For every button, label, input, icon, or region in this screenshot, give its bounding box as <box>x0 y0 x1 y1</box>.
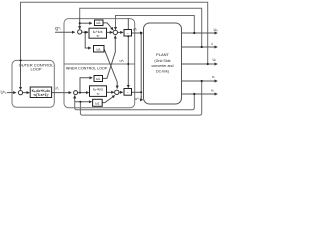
block outer PI controller <box>30 87 51 98</box>
svg-text:Uₖ: Uₖ <box>214 27 219 32</box>
svg-text:ωL: ωL <box>96 21 101 25</box>
svg-text:u*ₗ: u*ₗ <box>120 59 125 63</box>
wire feedback top middle y9.5 <box>80 8 202 46</box>
node dot inner bottom branch <box>79 101 81 103</box>
wire converter reference vertical to plant inputs <box>140 33 142 98</box>
wire top upper block diagonal to sum2 <box>103 23 113 30</box>
block top main PI <box>89 28 107 38</box>
wire top main block to sum2 <box>107 31 113 33</box>
wire plant output vgd <box>182 80 218 82</box>
wire feedback bottom outer y114.8 <box>80 82 201 115</box>
svg-text:Uₗ: Uₗ <box>213 57 217 62</box>
svg-text:~: ~ <box>127 31 129 35</box>
wire top sum1 to main block <box>82 31 88 33</box>
svg-text:ωL: ωL <box>96 77 101 81</box>
wire outer reference input <box>7 92 16 94</box>
svg-text:PLANT: PLANT <box>156 52 169 57</box>
svg-text:vₗ: vₗ <box>212 74 215 79</box>
svg-text:DC-link): DC-link) <box>156 70 169 74</box>
wire inner upper block diagonal to top sum2 <box>103 36 116 79</box>
wire top reference input <box>55 31 75 33</box>
block top modulation <box>124 30 132 37</box>
wire top small block down to inner small block <box>127 36 129 87</box>
node dot inner branch to upper block <box>79 92 81 94</box>
inner control loop box <box>64 19 135 108</box>
svg-text:~: ~ <box>127 91 129 95</box>
wire plant output vgq <box>182 93 218 95</box>
wire outer fb vertical into outer sum <box>20 60 22 90</box>
wire ig fb vertical into top sum1 <box>79 17 81 29</box>
node dot outer box top crossing <box>20 59 22 61</box>
wire plant output Ug <box>182 63 218 65</box>
node dot top small block bottom <box>127 35 129 37</box>
svg-text:LOOP: LOOP <box>30 66 41 71</box>
svg-text:⋅s⋅: ⋅s⋅ <box>96 34 100 38</box>
svg-text:ωL: ωL <box>95 101 100 105</box>
wire inner bottom block diagonal to inner sum2 <box>102 96 115 103</box>
node dot u* inner <box>140 91 142 93</box>
svg-text:converter and: converter and <box>152 64 174 68</box>
wire fb to inner bottom block <box>75 101 92 103</box>
svg-text:(Grid Side: (Grid Side <box>154 59 170 63</box>
block inner upper decoupling <box>94 76 103 82</box>
wire inner small block out <box>132 91 142 93</box>
node dot top branch to lower block <box>84 31 86 33</box>
wire top small block to plant <box>132 32 143 34</box>
node dot Ug tap <box>207 63 209 65</box>
inner box divider <box>64 63 135 65</box>
svg-text:iₗ: iₗ <box>212 41 214 46</box>
svg-text:ωL: ωL <box>96 48 101 52</box>
svg-text:Q*ₗ: Q*ₗ <box>55 26 61 31</box>
wire branch down to top lower block <box>85 32 91 48</box>
wire feedback bottom inner y109.4 <box>75 95 195 110</box>
outer control loop box <box>12 60 54 107</box>
wire feedback top inner y15.5 <box>116 16 195 33</box>
block inner main PI <box>90 86 107 97</box>
sum junction inner row 2 <box>115 90 119 94</box>
wire inner sum1 to main block <box>78 92 89 94</box>
sum junction inner row 1 <box>74 91 78 95</box>
block top lower decoupling <box>94 46 105 53</box>
node dot vgd tap <box>201 80 203 82</box>
wire outer sum to PI block <box>23 92 30 94</box>
svg-text:u*ₗ: u*ₗ <box>135 97 140 101</box>
node dot divider crossing <box>127 63 129 65</box>
svg-text:Uᵒₖ: Uᵒₖ <box>1 90 8 95</box>
wire vertical feed small blocks <box>127 18 129 29</box>
wire top sum2 to small block <box>117 31 123 33</box>
wire branch up to inner upper block <box>80 78 92 93</box>
node dot igd tap <box>201 46 203 48</box>
node dot Udc tap <box>193 32 195 34</box>
sum junction top row 2 <box>113 30 117 34</box>
svg-text:⋅s⋅: ⋅s⋅ <box>96 92 100 96</box>
block inner bottom decoupling <box>93 99 103 106</box>
node dot vgq tap <box>193 93 195 95</box>
node dot u* top <box>140 32 142 34</box>
sum junction top row 1 <box>78 30 82 34</box>
node dot branch ig to ωL <box>79 22 81 24</box>
sum junction outer <box>18 91 22 95</box>
block inner modulation <box>124 89 132 96</box>
wire udc fb vertical into top sum2 <box>115 28 117 31</box>
svg-text:u*ₗ: u*ₗ <box>133 28 138 32</box>
wire top lower block diagonal to inner sum2 <box>104 49 117 89</box>
plant box <box>144 23 182 104</box>
wire feedback top outermost y2 <box>21 2 208 63</box>
wire outer PI to inner sum1 <box>52 92 72 94</box>
wire inner main block to sum2 <box>107 91 114 93</box>
wire branch to top upper block <box>80 22 92 24</box>
wire inner sum2 to small block <box>119 91 123 93</box>
svg-text:⋅s(Tₖs+1)⋅: ⋅s(Tₖs+1)⋅ <box>33 93 49 97</box>
svg-text:vₗ: vₗ <box>211 88 214 93</box>
svg-text:i*ₗ: i*ₗ <box>56 86 60 91</box>
wire plant output igd <box>182 46 218 48</box>
svg-text:INNER CONTROL LOOP: INNER CONTROL LOOP <box>66 66 108 70</box>
wire plant output Udc <box>182 32 218 34</box>
block top upper decoupling <box>95 20 104 26</box>
wire inner fb arrow into sum1 bottom <box>74 96 76 99</box>
